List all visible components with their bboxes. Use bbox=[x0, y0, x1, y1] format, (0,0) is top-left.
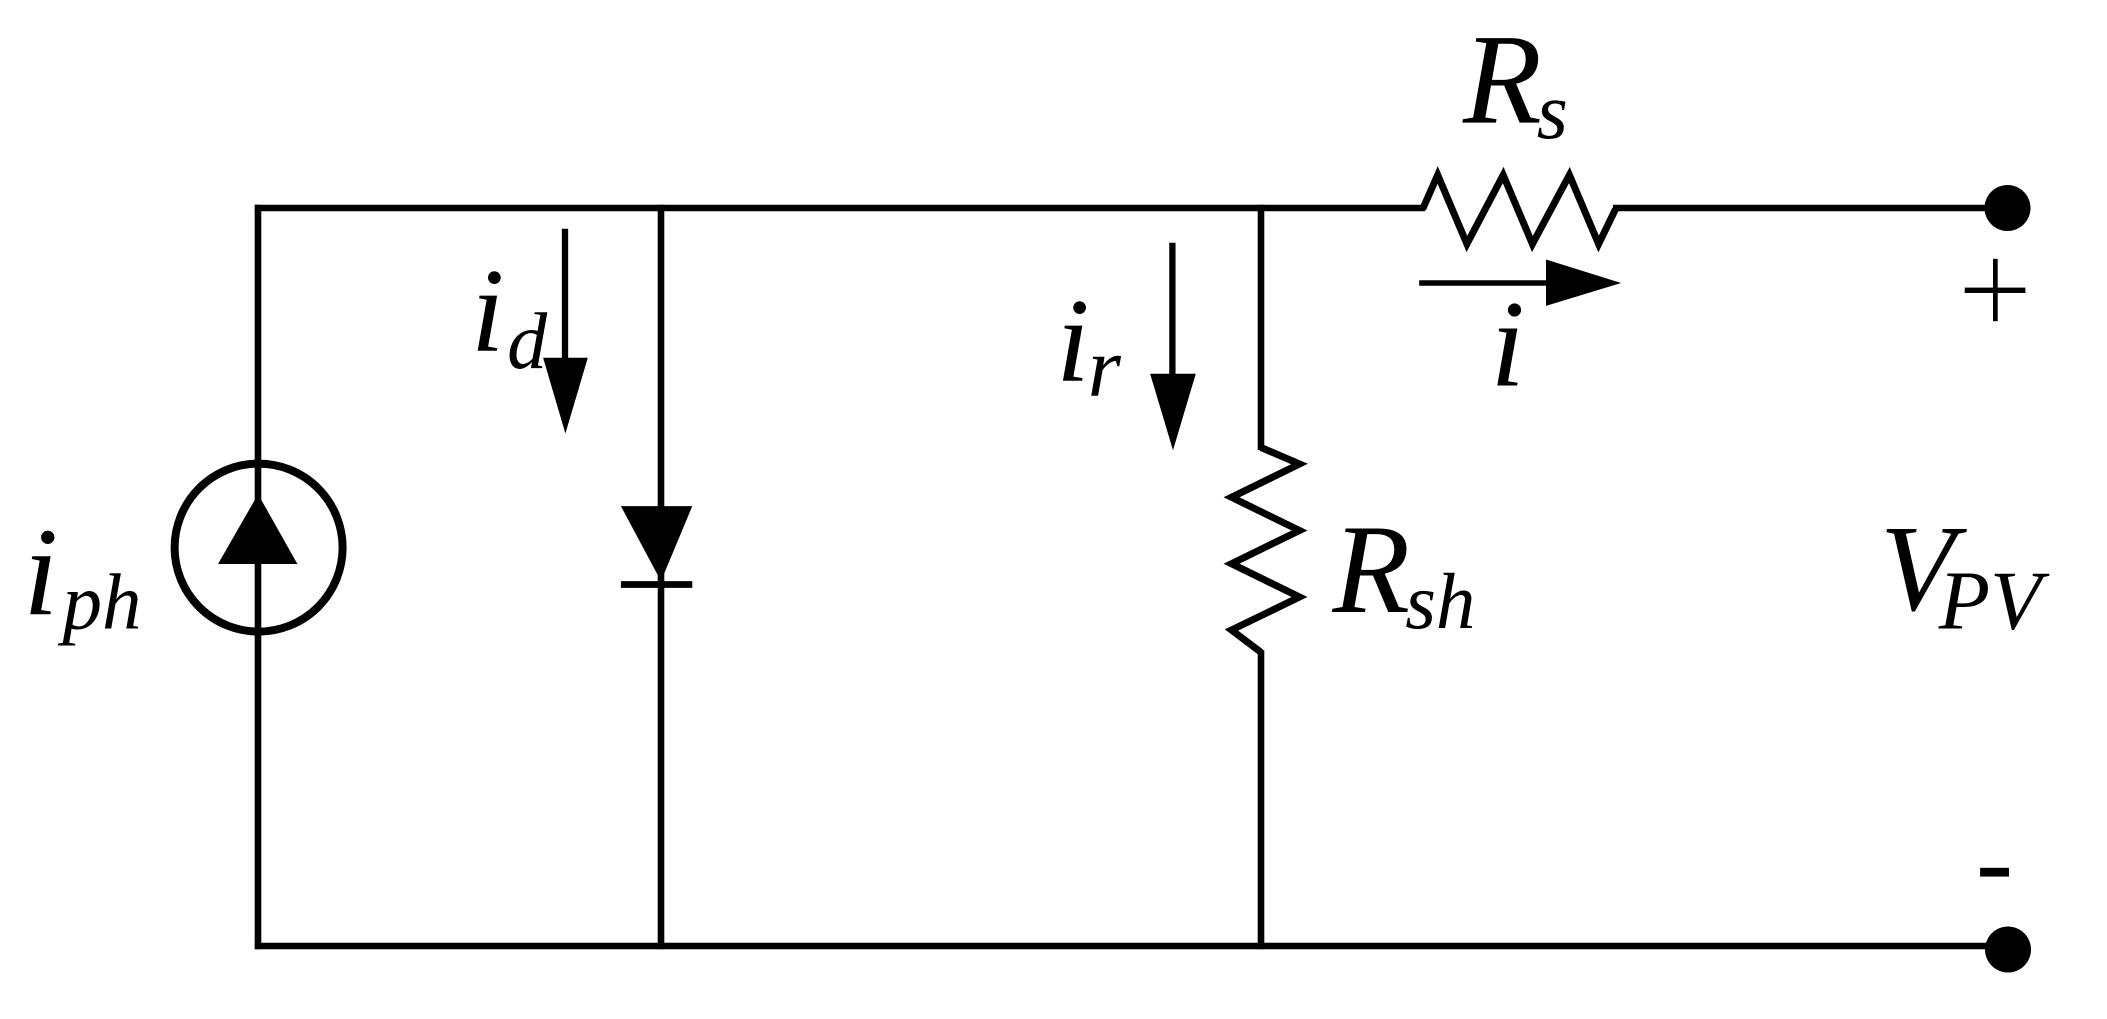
svg-text:i: i bbox=[1490, 275, 1524, 412]
svg-text:d: d bbox=[507, 298, 548, 386]
wire diode branch vertical bbox=[658, 205, 665, 950]
node terminal dot bottom-right bbox=[1985, 927, 2031, 973]
wire left vertical bbox=[255, 205, 262, 950]
wire top-left horizontal segment bbox=[255, 205, 1425, 212]
svg-text:i: i bbox=[1056, 274, 1089, 407]
svg-text:i: i bbox=[23, 503, 58, 642]
arrow i output current bbox=[1419, 280, 1550, 286]
current source iph circle bbox=[175, 464, 343, 632]
current source iph arrow bbox=[218, 494, 297, 564]
svg-text:r: r bbox=[1088, 321, 1122, 415]
minus sign bbox=[1980, 868, 2009, 877]
arrow id current bbox=[562, 229, 568, 360]
wire shunt branch vertical top bbox=[1258, 205, 1265, 450]
svg-text:s: s bbox=[1537, 68, 1568, 156]
diode D triangle bbox=[621, 506, 692, 581]
diode D cathode bar bbox=[621, 581, 692, 588]
svg-text:sh: sh bbox=[1405, 559, 1475, 646]
wire shunt branch vertical bottom bbox=[1258, 650, 1265, 949]
plus sign bbox=[1965, 288, 2026, 293]
svg-text:R: R bbox=[1332, 500, 1411, 640]
svg-text:R: R bbox=[1462, 8, 1542, 151]
svg-text:ph: ph bbox=[58, 559, 142, 646]
arrow ir current bbox=[1169, 243, 1175, 376]
resistor Rsh zigzag bbox=[1232, 448, 1300, 653]
resistor Rs zigzag bbox=[1423, 175, 1616, 244]
svg-text:PV: PV bbox=[1938, 555, 2050, 648]
svg-text:i: i bbox=[471, 244, 504, 377]
wire bottom horizontal bbox=[255, 943, 2008, 950]
wire top-right horizontal segment bbox=[1613, 205, 2007, 212]
node terminal dot top-right bbox=[1985, 185, 2031, 231]
